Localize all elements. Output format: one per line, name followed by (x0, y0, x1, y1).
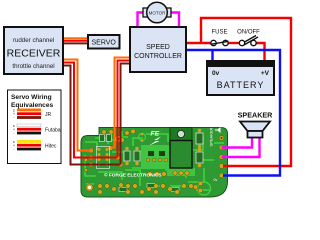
resistor R3 footprint (196, 129, 203, 148)
legend Hitec entry (13, 140, 57, 151)
capacitor C1 footprint (124, 147, 130, 165)
switch ON/OFF (237, 30, 260, 46)
wire red +V speed controller to fuse/switch/battery (186, 43, 265, 62)
wire throttle ribbon receiver to PCB (brown) (63, 66, 121, 165)
buzzer footprint bottom-right (193, 181, 210, 195)
wire motor right (magenta) (171, 13, 179, 28)
wire blue 0v speed controller to battery and PCB (186, 50, 280, 176)
wire speaker magenta 1 (222, 137, 253, 148)
PCB top-left footprints (100, 135, 112, 142)
PCB bottom pads row (98, 183, 194, 195)
svg-text:Futaba: Futaba (45, 128, 61, 134)
battery B1 (206, 60, 275, 95)
PCB right connector pads (219, 136, 224, 178)
PCB mounting hole bottom-left (86, 184, 93, 191)
PCB sound module board (81, 128, 228, 198)
PCB bottom resistor footprints (119, 184, 179, 192)
svg-text:SPEAKER: SPEAKER (209, 127, 214, 146)
svg-text:Hitec: Hitec (45, 144, 57, 150)
wire motor left (magenta) (138, 13, 144, 28)
legend JR entry (13, 109, 52, 120)
fuse F1 (211, 30, 229, 46)
capacitor C2 footprint (134, 147, 140, 165)
resistor R4 footprint (196, 148, 203, 167)
speaker LS1 (238, 111, 274, 138)
PCB silkscreen 0v label (214, 178, 218, 182)
wire rudder ribbon receiver to servo (63, 38, 88, 43)
servo box (88, 35, 120, 49)
svg-text:rudder channel: rudder channel (13, 37, 54, 44)
svg-text:0v: 0v (212, 70, 220, 77)
svg-text:CONTROLLER: CONTROLLER (134, 53, 182, 60)
motor M1 (143, 2, 171, 23)
PCB silkscreen SPEAKER vertical (209, 127, 214, 146)
wire PCB to speed controller (orange) (111, 58, 131, 148)
svg-text:FE: FE (151, 131, 160, 138)
svg-text:MOTOR: MOTOR (149, 10, 166, 15)
PCB extra pads (84, 129, 166, 176)
wire red +V loop to PCB (201, 18, 291, 166)
svg-text:0v: 0v (214, 178, 218, 182)
PCB silkscreen FE logo (149, 131, 161, 146)
svg-text:© FORGE ELECTRONICS: © FORGE ELECTRONICS (104, 172, 162, 179)
svg-text:SPEED: SPEED (146, 44, 170, 51)
PCB traces (85, 131, 224, 190)
svg-text:Servo Wiring: Servo Wiring (11, 94, 52, 101)
PCB IC U2 footprint (97, 147, 110, 169)
PCB connector pads (to speed controller) (108, 146, 123, 167)
legend box servo wiring equivalences (8, 90, 62, 164)
legend Futaba entry (13, 124, 61, 135)
PCB silkscreen speaker glyph (215, 127, 221, 133)
wire PCB to speed controller (red) (118, 61, 131, 158)
transistor Q1 TO-220 (170, 128, 192, 176)
svg-text:SPEAKER: SPEAKER (238, 111, 274, 120)
svg-text:SERVO: SERVO (92, 40, 117, 47)
PCB silkscreen FORGE ELECTRONICS (104, 172, 162, 179)
svg-text:BATTERY: BATTERY (217, 80, 265, 90)
wire speaker magenta 2 (222, 137, 260, 157)
PCB plane pads (146, 158, 167, 161)
svg-text:throttle channel: throttle channel (12, 63, 54, 70)
wire throttle ribbon receiver to PCB (red) (63, 63, 118, 158)
svg-text:Equivalences: Equivalences (11, 102, 53, 109)
svg-text:-: - (13, 131, 14, 135)
svg-text:-: - (13, 147, 14, 151)
PCB left connector pads (from receiver) (89, 148, 94, 167)
speed controller box U-ESC (130, 27, 186, 72)
wire PCB to speed controller (brown) (121, 64, 131, 165)
svg-text:-: - (13, 116, 14, 120)
svg-text:+V: +V (261, 70, 270, 77)
PCB top pads (102, 130, 146, 143)
PCB center ground plane (141, 145, 195, 176)
svg-text:FUSE: FUSE (211, 30, 227, 36)
svg-text:JR: JR (45, 112, 52, 118)
receiver box (4, 27, 63, 74)
svg-text:ON/OFF: ON/OFF (237, 30, 260, 36)
svg-text:RECEIVER: RECEIVER (7, 48, 61, 60)
wire throttle ribbon receiver to PCB (orange) (63, 60, 92, 151)
